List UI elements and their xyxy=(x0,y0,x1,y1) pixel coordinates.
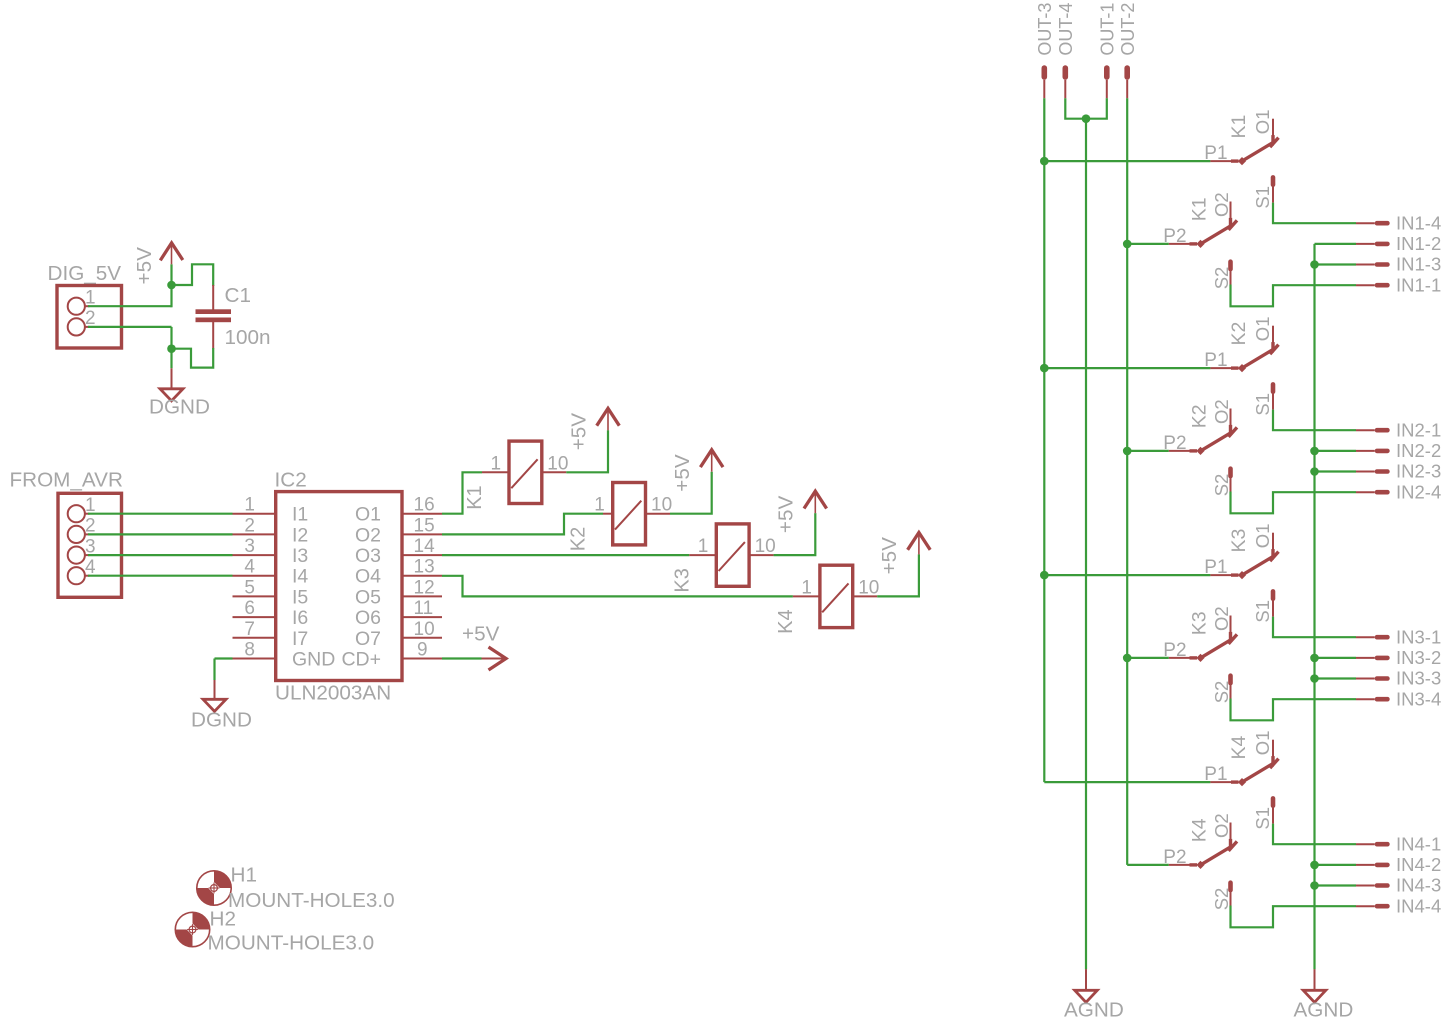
relay coil K1 body xyxy=(509,441,542,503)
wire IN3-3 to AGND bus xyxy=(1315,677,1357,679)
svg-text:1: 1 xyxy=(698,536,709,557)
pin IN2-1 xyxy=(1356,428,1390,433)
IC2 right pin 11 stub xyxy=(402,616,442,618)
connector J2 pin circle 3 xyxy=(68,547,85,564)
wire bus OUT-3 xyxy=(1043,98,1045,782)
svg-text:10: 10 xyxy=(414,619,435,640)
ground AGND left symbol xyxy=(1075,990,1098,1002)
svg-text:I4: I4 xyxy=(292,566,308,588)
svg-text:IN4-4: IN4-4 xyxy=(1396,895,1441,916)
svg-text:2: 2 xyxy=(244,515,255,536)
svg-text:+5V: +5V xyxy=(462,623,500,646)
relay contact K1 P2 lever xyxy=(1201,224,1234,244)
relay contact K2 O1 tick xyxy=(1270,345,1279,355)
relay contact K4 S2 pin xyxy=(1228,880,1233,905)
svg-text:OUT-3: OUT-3 xyxy=(1035,3,1055,56)
svg-text:+5V: +5V xyxy=(567,413,590,451)
svg-text:O2: O2 xyxy=(355,524,381,546)
svg-text:IN1-1: IN1-1 xyxy=(1396,274,1441,295)
relay K1 pin 1 stub xyxy=(482,471,509,473)
svg-text:IN1-4: IN1-4 xyxy=(1396,212,1441,233)
pin IN4-3 xyxy=(1356,883,1390,888)
relay contact K3 P1 lever xyxy=(1242,556,1275,576)
wire net IN3 to IC2 xyxy=(85,554,233,556)
svg-text:O1: O1 xyxy=(1252,731,1273,756)
wire GND from J1 pin2 xyxy=(85,326,172,328)
svg-text:+5V: +5V xyxy=(878,537,901,575)
svg-text:MOUNT-HOLE3.0: MOUNT-HOLE3.0 xyxy=(208,932,375,955)
ground DGND lead 2 xyxy=(214,680,216,699)
connector J2 pin circle 2 xyxy=(68,526,85,543)
svg-text:IN3-4: IN3-4 xyxy=(1396,688,1441,709)
svg-text:12: 12 xyxy=(414,577,435,598)
relay contact K2 P2 lever xyxy=(1201,431,1234,451)
wire IN2-2 to AGND bus xyxy=(1315,450,1357,452)
relay coil K4 body xyxy=(820,565,853,627)
svg-text:P1: P1 xyxy=(1204,143,1227,164)
supply symbol +5V at K3 xyxy=(804,491,827,513)
IC2 left pin 6 stub xyxy=(233,616,276,618)
svg-text:I3: I3 xyxy=(292,545,308,567)
wire OUT-4 drop xyxy=(1065,98,1086,118)
junction IN3-2 on AGND bus xyxy=(1310,654,1319,663)
IC2 right pin 13 stub xyxy=(402,575,442,577)
svg-text:O7: O7 xyxy=(355,628,381,650)
svg-text:P2: P2 xyxy=(1163,847,1186,868)
relay contact K1 S1 pin xyxy=(1271,175,1276,203)
svg-text:S1: S1 xyxy=(1252,807,1273,830)
svg-text:CD+: CD+ xyxy=(341,649,381,671)
svg-text:11: 11 xyxy=(414,598,434,619)
pin IN3-1 xyxy=(1356,635,1390,640)
relay contact K1 P2 pivot xyxy=(1196,240,1204,248)
svg-text:K1: K1 xyxy=(1189,197,1211,221)
svg-text:K2: K2 xyxy=(1189,404,1211,428)
pin IN3-3 xyxy=(1356,676,1390,681)
svg-text:K4: K4 xyxy=(775,609,797,633)
connector J2 pin circle 4 xyxy=(68,567,85,584)
connector J2 body xyxy=(58,493,122,597)
relay contact K4 O2 pin xyxy=(1230,823,1232,850)
junction IN1-3 on AGND bus xyxy=(1310,260,1319,269)
wire OUT-2 to K1 P2 xyxy=(1127,243,1169,245)
wire GND from C1 xyxy=(172,348,214,368)
svg-text:K3: K3 xyxy=(671,568,693,592)
relay contact K3 P1 common stub xyxy=(1210,574,1238,576)
svg-text:5: 5 xyxy=(244,577,255,598)
svg-text:O3: O3 xyxy=(355,545,381,567)
capacitor C1 top lead xyxy=(212,285,214,310)
pin IN3-4 xyxy=(1356,697,1390,702)
relay contact K1 P1 common stub xyxy=(1210,160,1238,162)
wire IN1-2 to AGND bus xyxy=(1315,243,1357,245)
IC2 right pin 10 stub xyxy=(402,637,442,639)
IC2 left pin 8 stub xyxy=(233,658,276,660)
svg-text:K1: K1 xyxy=(1228,115,1250,139)
svg-text:O1: O1 xyxy=(1252,524,1273,549)
mount hole H1 symbol xyxy=(197,871,231,905)
wire OUT-3 to K3 P1 xyxy=(1044,574,1210,576)
relay coil K2 body xyxy=(613,483,646,545)
wire +5V from J1 pin1 xyxy=(85,305,172,307)
wire K2 to +5V xyxy=(670,472,712,514)
svg-text:AGND: AGND xyxy=(1064,999,1124,1022)
svg-text:O1: O1 xyxy=(1252,317,1273,342)
junction IN4-2 on AGND bus xyxy=(1310,861,1319,870)
relay contact K2 P2 common stub xyxy=(1169,450,1197,452)
svg-text:100n: 100n xyxy=(225,326,271,349)
svg-text:1: 1 xyxy=(244,495,255,516)
junction K3 P2 on OUT-2 bus xyxy=(1123,654,1132,663)
wire IN3-2 to AGND bus xyxy=(1315,657,1357,659)
svg-text:O4: O4 xyxy=(355,566,381,588)
junction K1 P1 on OUT-3 bus xyxy=(1040,157,1049,166)
relay contact K3 P2 common stub xyxy=(1169,657,1197,659)
relay contact K2 O2 tick xyxy=(1229,427,1238,437)
relay coil K3 diagonal xyxy=(719,542,745,571)
svg-text:IN3-2: IN3-2 xyxy=(1396,647,1441,668)
relay K1 pin 10 stub xyxy=(542,471,567,473)
svg-text:P1: P1 xyxy=(1204,557,1227,578)
connector J2 pin circle 1 xyxy=(68,505,85,522)
pin IN1-2 xyxy=(1356,242,1390,247)
svg-text:H1: H1 xyxy=(231,864,257,887)
wire K4 S1 to IN4-1 xyxy=(1273,824,1356,845)
IC U1 body xyxy=(276,492,402,681)
supply symbol +5V (arrow) xyxy=(160,243,183,264)
svg-text:IN3-3: IN3-3 xyxy=(1396,668,1441,689)
svg-text:IN4-1: IN4-1 xyxy=(1396,833,1441,854)
svg-text:+5V: +5V xyxy=(775,496,798,534)
wire bus AGND right xyxy=(1313,244,1315,970)
relay coil K1 diagonal xyxy=(511,459,537,488)
ground DGND symbol xyxy=(160,389,183,401)
wire net IN4 to IC2 xyxy=(85,575,233,577)
svg-text:IN3-1: IN3-1 xyxy=(1396,626,1441,647)
wire IN2-3 to AGND bus xyxy=(1315,470,1357,472)
relay contact K4 P1 pivot xyxy=(1238,778,1246,786)
mount hole H2 symbol xyxy=(175,912,209,946)
svg-text:K4: K4 xyxy=(1189,818,1211,842)
svg-text:4: 4 xyxy=(244,557,255,578)
relay contact K1 S2 pin xyxy=(1228,259,1233,284)
relay contact K4 P2 lever xyxy=(1201,845,1234,865)
svg-text:I6: I6 xyxy=(292,607,308,629)
IC2 right pin 14 stub xyxy=(402,554,442,556)
relay contact K4 O1 tick xyxy=(1270,759,1279,769)
pin IN2-2 xyxy=(1356,449,1390,454)
svg-text:ULN2003AN: ULN2003AN xyxy=(275,682,391,705)
relay contact K4 P1 lever xyxy=(1242,763,1275,783)
IC2 left pin 1 stub xyxy=(233,513,276,515)
svg-text:OUT-2: OUT-2 xyxy=(1118,3,1138,56)
svg-text:O2: O2 xyxy=(1211,813,1232,838)
relay contact K4 P1 common stub xyxy=(1210,781,1238,783)
relay contact K2 P1 common stub xyxy=(1210,367,1238,369)
wire OUT-3 to K1 P1 xyxy=(1044,160,1210,162)
svg-text:P2: P2 xyxy=(1163,640,1186,661)
svg-text:IN4-2: IN4-2 xyxy=(1396,854,1441,875)
svg-text:S2: S2 xyxy=(1211,681,1232,704)
svg-text:+5V: +5V xyxy=(133,247,156,285)
junction GND node xyxy=(167,344,176,353)
relay contact K4 S1 pin xyxy=(1271,796,1276,824)
svg-text:DGND: DGND xyxy=(191,709,252,732)
supply symbol +5V (right arrow) xyxy=(482,647,507,670)
svg-text:S1: S1 xyxy=(1252,186,1273,209)
svg-text:P2: P2 xyxy=(1163,226,1186,247)
wire GND vertical xyxy=(170,327,172,368)
wire K2 S1 to IN2-1 xyxy=(1273,410,1356,431)
svg-text:8: 8 xyxy=(244,640,255,661)
IC2 left pin 4 stub xyxy=(233,575,276,577)
svg-text:OUT-1: OUT-1 xyxy=(1097,3,1117,56)
relay K2 pin 1 stub xyxy=(603,513,613,515)
relay contact K4 P2 pivot xyxy=(1196,861,1204,869)
relay contact K3 O1 pin xyxy=(1272,533,1274,560)
svg-text:16: 16 xyxy=(414,495,435,516)
relay contact K2 S1 pin xyxy=(1271,382,1276,410)
relay contact K2 S2 pin xyxy=(1228,466,1233,491)
relay coil K2 diagonal xyxy=(615,501,641,530)
IC2 left pin 5 stub xyxy=(233,595,276,597)
svg-text:I5: I5 xyxy=(292,586,308,608)
relay contact K1 O2 tick xyxy=(1229,220,1238,230)
svg-text:IN4-3: IN4-3 xyxy=(1396,875,1441,896)
svg-text:IN2-3: IN2-3 xyxy=(1396,461,1441,482)
junction IN3-3 on AGND bus xyxy=(1310,674,1319,683)
supply symbol +5V at K1 xyxy=(597,408,620,430)
relay contact K1 P1 lever xyxy=(1242,142,1275,162)
supply symbol +5V at K2 xyxy=(700,450,723,472)
wire K4 S2 to IN4-4 xyxy=(1231,906,1357,928)
junction K2 P2 on OUT-2 bus xyxy=(1123,447,1132,456)
wire net IN2 to IC2 xyxy=(85,533,233,535)
relay contact K1 P2 common stub xyxy=(1169,243,1197,245)
relay contact K4 O2 tick xyxy=(1229,841,1238,851)
relay contact K2 O2 pin xyxy=(1230,409,1232,436)
wire OUT-2 to K2 P2 xyxy=(1127,450,1169,452)
IC2 right pin 16 stub xyxy=(402,513,442,515)
capacitor C1 bottom lead xyxy=(212,322,214,349)
supply symbol +5V at K4 xyxy=(908,533,931,555)
ground AGND right symbol xyxy=(1303,990,1326,1002)
pin IN4-1 xyxy=(1356,842,1390,847)
relay coil K4 diagonal xyxy=(822,583,848,612)
svg-text:K2: K2 xyxy=(568,527,590,551)
svg-text:DIG_5V: DIG_5V xyxy=(48,262,122,285)
svg-text:K2: K2 xyxy=(1228,322,1250,346)
relay contact K2 P2 pivot xyxy=(1196,447,1204,455)
svg-text:1: 1 xyxy=(491,453,502,474)
pin IN4-4 xyxy=(1356,904,1390,909)
relay contact K2 P1 lever xyxy=(1242,349,1275,369)
svg-text:P2: P2 xyxy=(1163,433,1186,454)
svg-text:6: 6 xyxy=(244,598,255,619)
pin IN2-4 xyxy=(1356,490,1390,495)
relay contact K3 S1 pin xyxy=(1271,589,1276,617)
pin OUT-1 xyxy=(1104,65,1110,98)
relay K3 pin 10 stub xyxy=(749,554,774,556)
relay contact K3 O1 tick xyxy=(1270,552,1279,562)
svg-text:14: 14 xyxy=(414,536,436,557)
wire +5V from IC2 pin 9 xyxy=(442,657,482,659)
wire bus OUT-2 xyxy=(1126,98,1128,865)
wire K2 S2 to IN2-4 xyxy=(1231,492,1357,514)
svg-text:O2: O2 xyxy=(1211,399,1232,424)
wire net from IC2 to K1 xyxy=(442,472,482,513)
svg-text:K1: K1 xyxy=(464,485,486,509)
IC2 left pin 7 stub xyxy=(233,637,276,639)
relay K4 pin 10 stub xyxy=(853,595,878,597)
svg-text:10: 10 xyxy=(547,453,568,474)
ground AGND right lead xyxy=(1314,969,1316,990)
wire K1 S2 to IN1-1 xyxy=(1231,285,1357,307)
connector J1 body xyxy=(57,286,122,349)
wire net from IC2 to K3 xyxy=(442,554,689,556)
wire IN1-3 to AGND bus xyxy=(1315,263,1357,265)
svg-text:S2: S2 xyxy=(1211,474,1232,497)
svg-text:AGND: AGND xyxy=(1294,999,1354,1022)
connector J1 pin circle 2 xyxy=(68,318,85,335)
pin OUT-3 xyxy=(1042,65,1048,98)
pin IN1-4 xyxy=(1356,221,1390,226)
svg-text:13: 13 xyxy=(414,557,435,578)
junction IN4-3 on AGND bus xyxy=(1310,881,1319,890)
svg-text:10: 10 xyxy=(858,577,879,598)
wire K3 S1 to IN3-1 xyxy=(1273,617,1356,638)
svg-text:H2: H2 xyxy=(210,908,236,931)
svg-text:IN2-1: IN2-1 xyxy=(1396,419,1441,440)
relay contact K2 P1 pivot xyxy=(1238,364,1246,372)
svg-text:O1: O1 xyxy=(1252,110,1273,135)
ground DGND lead xyxy=(171,368,173,389)
junction K3 P1 on OUT-3 bus xyxy=(1040,571,1049,580)
svg-text:OUT-4: OUT-4 xyxy=(1056,3,1076,56)
pin IN1-1 xyxy=(1356,283,1390,288)
relay contact K3 S2 pin xyxy=(1228,673,1233,698)
pin IN2-3 xyxy=(1356,469,1390,474)
relay contact K1 O2 pin xyxy=(1230,202,1232,229)
pin IN4-2 xyxy=(1356,863,1390,868)
relay contact K3 P1 pivot xyxy=(1238,571,1246,579)
relay contact K1 P1 pivot xyxy=(1238,157,1246,165)
svg-text:K3: K3 xyxy=(1228,529,1250,553)
junction +5V node xyxy=(167,281,176,290)
relay contact K4 P2 common stub xyxy=(1169,864,1197,866)
wire +5V vertical xyxy=(170,264,172,307)
relay K2 pin 10 stub xyxy=(646,513,671,515)
relay contact K4 O1 pin xyxy=(1272,740,1274,767)
svg-text:S1: S1 xyxy=(1252,600,1273,623)
ground AGND left lead xyxy=(1085,969,1087,990)
relay contact K3 O2 pin xyxy=(1230,616,1232,643)
svg-text:I2: I2 xyxy=(292,524,308,546)
svg-text:O6: O6 xyxy=(355,607,381,629)
wire K4 to +5V xyxy=(877,554,919,596)
wire K1 S1 to IN1-4 xyxy=(1273,203,1356,224)
junction K1 P2 on OUT-2 bus xyxy=(1123,240,1132,249)
pin OUT-2 xyxy=(1124,65,1130,98)
svg-text:MOUNT-HOLE3.0: MOUNT-HOLE3.0 xyxy=(228,889,395,912)
svg-text:+5V: +5V xyxy=(671,454,694,492)
svg-text:K3: K3 xyxy=(1189,611,1211,635)
wire +5V to C1 xyxy=(172,264,214,286)
svg-text:I1: I1 xyxy=(292,504,308,526)
svg-text:S2: S2 xyxy=(1211,888,1232,911)
wire K1 to +5V xyxy=(566,430,608,472)
svg-text:IN2-4: IN2-4 xyxy=(1396,481,1441,502)
relay K3 pin 1 stub xyxy=(689,554,716,556)
svg-text:1: 1 xyxy=(801,577,812,598)
relay contact K3 P2 pivot xyxy=(1196,654,1204,662)
svg-text:3: 3 xyxy=(244,536,255,557)
wire net from IC2 to K4 xyxy=(442,576,793,597)
junction K2 P1 on OUT-3 bus xyxy=(1040,364,1049,373)
svg-text:IN2-2: IN2-2 xyxy=(1396,440,1441,461)
connector J1 pin circle 1 xyxy=(68,298,85,315)
IC2 left pin 2 stub xyxy=(233,533,276,535)
pin IN3-2 xyxy=(1356,656,1390,661)
svg-text:GND: GND xyxy=(292,649,335,671)
svg-text:O1: O1 xyxy=(355,504,381,526)
svg-text:O2: O2 xyxy=(1211,606,1232,631)
wire OUT-2 to K4 P2 xyxy=(1127,864,1169,866)
svg-text:S1: S1 xyxy=(1252,393,1273,416)
svg-text:P1: P1 xyxy=(1204,350,1227,371)
IC2 right pin 9 stub xyxy=(402,658,442,660)
wire OUT-3 to K2 P1 xyxy=(1044,367,1210,369)
svg-text:DGND: DGND xyxy=(149,396,210,419)
relay contact K3 P2 lever xyxy=(1201,638,1234,658)
ground DGND symbol 2 xyxy=(203,699,226,711)
svg-text:C1: C1 xyxy=(225,284,251,307)
IC2 right pin 15 stub xyxy=(402,533,442,535)
pin IN1-3 xyxy=(1356,262,1390,267)
svg-text:O2: O2 xyxy=(1211,192,1232,217)
relay contact K3 O2 tick xyxy=(1229,634,1238,644)
svg-text:FROM_AVR: FROM_AVR xyxy=(10,469,123,492)
wire K3 S2 to IN3-4 xyxy=(1231,699,1357,721)
relay contact K1 O1 tick xyxy=(1270,138,1279,148)
relay K4 pin 1 stub xyxy=(793,595,820,597)
wire IN4-3 to AGND bus xyxy=(1315,884,1357,886)
svg-text:15: 15 xyxy=(414,515,435,536)
svg-text:10: 10 xyxy=(651,495,672,516)
wire IN4-2 to AGND bus xyxy=(1315,864,1357,866)
svg-text:IC2: IC2 xyxy=(275,469,307,492)
wire OUT-3 to K4 P1 xyxy=(1044,781,1210,783)
svg-text:P1: P1 xyxy=(1204,764,1227,785)
wire OUT-2 to K3 P2 xyxy=(1127,657,1169,659)
capacitor C1 plates xyxy=(196,309,232,322)
wire GND from IC2 pin 8 xyxy=(215,659,233,681)
svg-text:7: 7 xyxy=(244,619,255,640)
junction OUT-4/OUT-1 xyxy=(1082,114,1091,123)
svg-text:10: 10 xyxy=(755,536,776,557)
relay contact K1 O1 pin xyxy=(1272,119,1274,146)
wire bus OUT-4/OUT-1 to AGND xyxy=(1085,119,1087,970)
svg-text:K4: K4 xyxy=(1228,735,1250,759)
IC2 left pin 3 stub xyxy=(233,554,276,556)
svg-text:IN1-3: IN1-3 xyxy=(1396,254,1441,275)
relay coil K3 body xyxy=(716,524,749,586)
wire net from IC2 to K2 xyxy=(442,514,603,535)
svg-text:9: 9 xyxy=(417,640,428,661)
junction IN2-2 on AGND bus xyxy=(1310,447,1319,456)
wire OUT-1 drop xyxy=(1086,98,1107,118)
wire net IN1 to IC2 xyxy=(85,513,233,515)
